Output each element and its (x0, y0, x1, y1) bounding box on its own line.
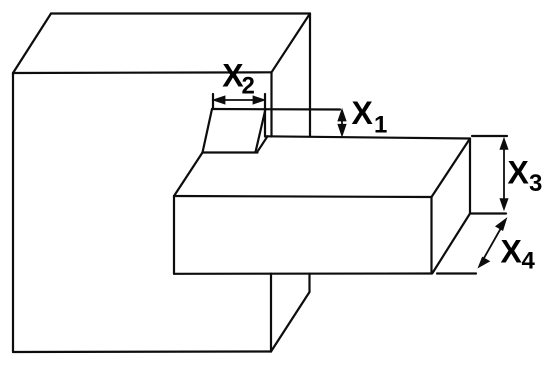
svg-text:3: 3 (529, 170, 542, 197)
X3 bottom extension line (471, 212, 506, 214)
wedge bottom-right depth edge (258, 136, 268, 151)
wedge right edge (256, 109, 266, 152)
block front-right edge lower (270, 274, 272, 352)
beam end-face bottom depth edge (433, 214, 471, 274)
wedge left edge (203, 109, 213, 153)
dimension arrow X2 (215, 97, 264, 104)
svg-text:1: 1 (374, 112, 387, 139)
svg-text:X: X (501, 234, 523, 270)
svg-text:2: 2 (242, 73, 255, 100)
wedge bottom edge (203, 151, 258, 153)
block front-bottom edge (13, 350, 271, 353)
beam back-right edge (469, 139, 471, 214)
dimension arrow X3 (501, 140, 508, 209)
beam front-left edge (173, 196, 175, 274)
dimension arrow X4 (479, 220, 506, 267)
wedge top edge and X1 extension line (212, 108, 340, 111)
X3 top extension line (472, 135, 507, 137)
beam top-left depth edge (174, 153, 203, 197)
block back-right edge lower (308, 274, 310, 292)
dimension arrow X1 (339, 111, 346, 135)
block back-top edge (51, 12, 310, 14)
block front-left edge (12, 73, 14, 352)
X4 bottom extension line (437, 272, 476, 274)
svg-text:4: 4 (522, 248, 536, 275)
X2 right tick (264, 94, 266, 137)
X2 left tick (212, 94, 214, 108)
block back-right edge upper (309, 14, 311, 137)
block bottom-right depth edge (271, 292, 310, 352)
svg-text:X: X (508, 155, 530, 191)
beam top-right depth edge (432, 139, 471, 198)
svg-text:X: X (352, 95, 374, 131)
beam back-top edge (266, 136, 471, 138)
block top-left depth edge (13, 14, 51, 74)
block front-right edge upper (270, 72, 272, 136)
beam front-top edge (174, 196, 432, 197)
beam front-bottom edge (174, 272, 432, 274)
block top-right depth edge (272, 14, 311, 73)
beam front-right edge (430, 197, 432, 273)
block front-top edge (13, 71, 272, 74)
